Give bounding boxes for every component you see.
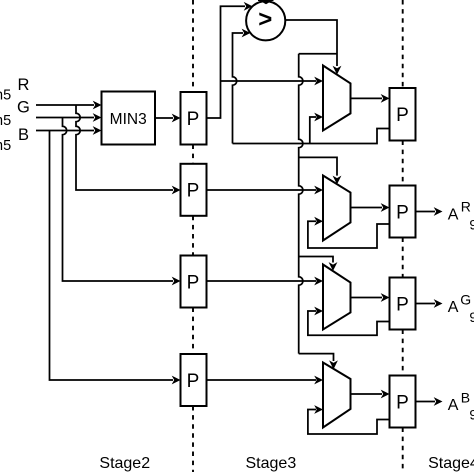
pipeline register P4 (stage2, B) — [181, 354, 207, 406]
mux4 select branch wire — [299, 354, 338, 370]
mux3 data input 2 feedback wire — [308, 307, 390, 336]
svg-text:P: P — [396, 105, 409, 126]
svg-text:A: A — [448, 299, 459, 316]
label Stage2 — [99, 455, 150, 472]
svg-text:9: 9 — [469, 217, 474, 233]
output label A^B_9 — [448, 389, 474, 422]
svg-text:R: R — [18, 76, 30, 94]
svg-text:P: P — [187, 371, 200, 392]
feedback wire from P (min) to comparator and mux1 — [233, 129, 390, 144]
pipeline register P3 (stage2, G) — [181, 256, 207, 308]
mux4 (stage3, B) — [323, 363, 351, 428]
mux1 (stage3, min) — [323, 66, 351, 131]
svg-text:A: A — [448, 397, 459, 414]
wire P2 output to mux2 data1 — [207, 186, 324, 195]
svg-text:R: R — [461, 199, 471, 215]
output label A^R_9 — [448, 199, 474, 233]
svg-text:B: B — [461, 389, 470, 405]
wire B tap down to P4 — [50, 131, 181, 385]
comparator output wire to mux1 select — [285, 20, 341, 75]
wire MIN3 output to P1 — [155, 114, 181, 123]
select distribution vertical with hops — [299, 54, 303, 354]
wire P4 output to mux4 data1 — [207, 376, 324, 385]
mux3 select branch wire — [299, 257, 338, 271]
svg-text:>: > — [258, 6, 272, 33]
input label B — [18, 126, 29, 144]
svg-text:G: G — [460, 292, 471, 308]
wire R input to MIN3 — [36, 101, 102, 110]
comparator input 2 vertical (from feedback) with hop over data1 wire — [233, 29, 251, 144]
mux2 select branch wire — [299, 157, 342, 184]
stage3/stage4 boundary dashed line — [402, 0, 404, 472]
svg-text:P: P — [396, 202, 409, 223]
output wire A_R — [416, 207, 443, 216]
stage2/stage3 boundary dashed line — [192, 0, 194, 472]
comparator U1 (>) — [246, 1, 285, 40]
svg-text:9: 9 — [469, 309, 474, 325]
mux2 output to stage4 register — [351, 203, 390, 212]
wire G input to MIN3 — [36, 113, 102, 122]
stage4 register P (R row) — [390, 186, 416, 238]
svg-text:n5: n5 — [0, 88, 11, 104]
MIN3 block — [102, 92, 156, 145]
svg-text:P: P — [187, 181, 200, 202]
mux2 data input 2 feedback wire — [308, 217, 390, 248]
output wire A_G — [416, 299, 443, 308]
svg-text:P: P — [187, 272, 200, 293]
output label A^G_9 — [448, 292, 474, 325]
svg-text:B: B — [18, 126, 29, 144]
pipeline register P2 (stage2, R) — [181, 164, 207, 216]
label Stage4 (cut at right edge) — [428, 455, 474, 472]
svg-text:P: P — [396, 392, 409, 413]
wire B input to MIN3 — [36, 126, 102, 135]
wire P3 output to mux3 data1 — [207, 277, 324, 286]
select distribution branch wire — [299, 53, 337, 55]
arrow entering comparator from top (cut off) — [258, 0, 274, 4]
input label R — [18, 76, 30, 94]
svg-text:P: P — [396, 294, 409, 315]
svg-text:Stage4: Stage4 — [428, 455, 474, 472]
label Stage3 — [246, 455, 297, 472]
input label G — [17, 99, 30, 117]
wire P1 output up to comparator input 1 and branch to mux1 data1 — [207, 2, 253, 118]
svg-text:Stage2: Stage2 — [99, 455, 150, 472]
svg-text:A: A — [448, 207, 459, 224]
output wire A_B — [416, 397, 443, 406]
svg-text:n5: n5 — [0, 138, 11, 154]
wire R tap down to P2 with hops over G,B wires — [76, 105, 181, 194]
mux1 data input 2 wire (feedback) — [310, 113, 323, 144]
svg-text:n5: n5 — [0, 113, 11, 129]
wire node T-branch to mux1 data input 1 — [221, 77, 324, 86]
stage4 register P (B row) — [390, 376, 416, 428]
mux1 output to stage4 register — [351, 94, 390, 103]
svg-text:9: 9 — [469, 407, 474, 423]
pipeline register P1 (stage2, min value) — [181, 92, 207, 145]
wire G tap down to P3 with hop over B wire — [63, 118, 181, 286]
svg-text:Stage3: Stage3 — [246, 455, 297, 472]
svg-text:P: P — [187, 109, 200, 130]
mux3 (stage3, G) — [323, 265, 351, 330]
svg-text:G: G — [17, 99, 30, 117]
input label n5 (B row, cut at left edge) — [0, 138, 11, 154]
mux4 data input 2 feedback wire — [308, 405, 390, 434]
svg-text:MIN3: MIN3 — [110, 111, 147, 128]
mux2 (stage3, R) — [323, 176, 351, 241]
input label n5 (G row, cut at left edge) — [0, 113, 11, 129]
mux4 output to stage4 register — [351, 390, 390, 399]
mux3 output to stage4 register — [351, 293, 390, 302]
input label n5 (R row, cut at left edge) — [0, 88, 11, 104]
stage4 register P (min row) — [390, 88, 416, 141]
stage4 register P (G row) — [390, 278, 416, 330]
